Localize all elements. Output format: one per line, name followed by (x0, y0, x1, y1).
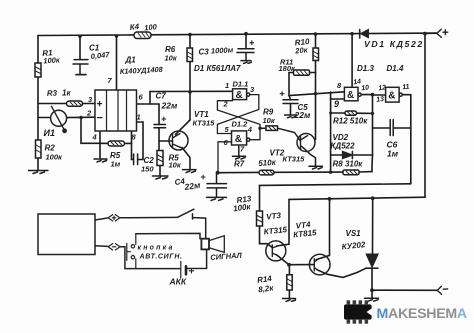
wire pin4 stub (99, 131, 101, 158)
svg-text:180к: 180к (279, 64, 297, 73)
svg-text:1: 1 (225, 81, 229, 90)
resistor R4 (K4) (134, 32, 151, 39)
wire R12 row (331, 112, 373, 114)
svg-text:1к: 1к (62, 89, 71, 98)
MAKESHEMA logo (344, 300, 467, 323)
node R10 top (314, 32, 318, 36)
plus mark C5 (280, 91, 285, 96)
wire C7 upper (158, 104, 160, 124)
svg-text:2: 2 (86, 109, 92, 118)
resistor R12 (345, 111, 357, 115)
node pin8 cross (314, 92, 317, 95)
ground under VT2 emitter (303, 148, 323, 170)
wire D1.4 output (402, 94, 411, 96)
wire mic row (38, 116, 96, 118)
resistor R9 (260, 126, 301, 141)
wire VS1 cathode vertical (371, 268, 373, 297)
connector minus left (108, 244, 120, 250)
svg-text:2: 2 (223, 100, 229, 109)
wire C5 branch vertical (289, 73, 291, 100)
wire C7 lower to R5b (158, 128, 160, 151)
ground under C1 (76, 74, 86, 76)
wire VD2 row (331, 154, 373, 156)
svg-text:22м: 22м (161, 101, 178, 111)
gate D1.1 (233, 89, 250, 101)
resistor R8 (343, 170, 359, 175)
wire C5 ground stub (290, 104, 292, 115)
svg-text:D1 К561ЛА7: D1 К561ЛА7 (194, 64, 241, 73)
plus mark C4 (201, 175, 206, 180)
wire pin14 vertical (351, 34, 353, 88)
transistor VT1 (169, 131, 188, 150)
op-amp U1 (Д1) body (95, 90, 137, 131)
wire stub up from pin6 row (149, 92, 151, 105)
ground under pin4 (94, 159, 107, 162)
node C1 top (78, 35, 82, 39)
wire right rail to plus (424, 34, 426, 198)
ground under R14 (283, 299, 296, 302)
wire C5 node to pin8 (289, 92, 344, 96)
svg-text:C3: C3 (199, 48, 210, 57)
svg-text:&: & (236, 90, 243, 101)
gate D1.2 (232, 131, 250, 145)
wire minus down and bottom row (120, 247, 180, 269)
wire R14 stub (288, 265, 290, 298)
svg-text:100к: 100к (46, 153, 64, 162)
ground under C3 (241, 61, 252, 64)
wire VT3 emitter to VT4 base (289, 264, 314, 266)
wire R5a to pin8 (100, 142, 132, 144)
node pin10 (371, 93, 375, 97)
ground under D1.2 pin7 (233, 145, 246, 159)
wire VT1 emitter to ground (182, 148, 190, 169)
node VS1 cathode (370, 288, 374, 292)
resistor R1 (35, 63, 41, 77)
button branch top wire (136, 233, 200, 238)
resistor R5 1M (108, 141, 125, 146)
svg-text:150: 150 (141, 165, 154, 174)
svg-text:10: 10 (361, 84, 370, 92)
resistor R7 (259, 170, 274, 175)
logo chip notch (367, 308, 372, 315)
connector plus right (437, 29, 448, 37)
svg-text:12: 12 (378, 84, 387, 92)
svg-text:КТ315: КТ315 (193, 119, 216, 128)
svg-text:R8 310к: R8 310к (333, 160, 364, 169)
wire pin9 loop (331, 99, 353, 101)
svg-text:10к: 10к (263, 116, 276, 125)
wire battery to horn (186, 249, 207, 268)
wire VT3 collector vertical (277, 199, 290, 246)
node R9 tap (258, 127, 261, 130)
wire VT4 emitter to VS1 gate (317, 268, 366, 277)
wire R11 row (289, 72, 316, 74)
capacitor C1 (73, 60, 88, 75)
wire pin1 to C2 (137, 122, 144, 160)
wire top supply rail (38, 33, 437, 35)
svg-text:4: 4 (247, 125, 253, 134)
resistor R5b 10k (157, 151, 163, 166)
logo chip pins (347, 300, 369, 323)
resistor R14 (287, 275, 292, 290)
resistor R13 (257, 211, 263, 226)
wire R10 branch (315, 34, 317, 140)
wire pin8 stub (132, 131, 134, 160)
connector plus left (108, 215, 120, 221)
ground under VS1 (365, 298, 379, 301)
capacitor C2 (134, 154, 138, 165)
svg-text:АВТ.СИГН.: АВТ.СИГН. (139, 254, 183, 261)
node pin14 top (350, 32, 354, 36)
svg-text:10к: 10к (169, 161, 182, 170)
svg-text:R7: R7 (234, 160, 245, 169)
svg-text:D1.3: D1.3 (357, 64, 374, 73)
svg-text:VS1: VS1 (346, 229, 362, 238)
svg-text:9: 9 (334, 99, 339, 109)
svg-text:1м: 1м (111, 160, 121, 169)
node VT3 emitter (287, 263, 291, 267)
capacitor C7 (154, 125, 166, 128)
wire R6 branch vertical (189, 35, 191, 120)
wire D1.3 output (361, 94, 372, 96)
wire C1 stub (79, 37, 81, 60)
wire VS1 to minus connector (372, 289, 437, 291)
svg-text:4: 4 (92, 133, 98, 142)
ground under VT1 emitter (183, 170, 197, 173)
wire left rail (37, 36, 39, 171)
wire VT1 base (159, 140, 173, 142)
gate D1.3 (344, 87, 361, 101)
svg-text:MAKESHEMA: MAKESHEMA (377, 306, 467, 322)
switch SA blade (177, 209, 205, 239)
wire D1.4 input (373, 94, 386, 96)
node R8 left (329, 171, 332, 174)
wire VT4 collector vertical (316, 199, 329, 260)
wire plus connector stub (425, 32, 437, 34)
wire R5b ground stub (159, 166, 161, 176)
gate D1.4 (386, 87, 403, 102)
svg-text:510к: 510к (258, 158, 277, 168)
svg-text:1000м: 1000м (211, 45, 234, 55)
resistor R10 (313, 48, 319, 61)
node VT1 collector (188, 90, 192, 94)
svg-text:D1.4: D1.4 (387, 64, 404, 73)
svg-text:Д1: Д1 (125, 56, 137, 65)
svg-text:1м: 1м (387, 149, 399, 159)
capacitor C4 (207, 173, 227, 197)
diode VD2 (343, 151, 353, 158)
svg-text:АКК: АКК (169, 277, 187, 287)
svg-text:И1: И1 (44, 128, 55, 138)
transistor VT3 (266, 241, 286, 261)
svg-text:D1.1: D1.1 (233, 80, 249, 89)
svg-text:R2: R2 (45, 144, 56, 153)
svg-text:К4: К4 (129, 22, 140, 32)
wire D1.3 out node vertical (371, 95, 374, 172)
svg-text:КД522: КД522 (331, 142, 356, 151)
svg-text:R3: R3 (47, 88, 58, 98)
svg-text:кнопка: кнопка (138, 245, 175, 252)
capacitor C6 (390, 120, 393, 136)
svg-text:VT3: VT3 (266, 211, 282, 222)
connector minus right (437, 286, 447, 294)
wire VT3 emitter (277, 255, 290, 265)
svg-text:100: 100 (144, 22, 158, 32)
node pin7 top (115, 34, 119, 38)
logo chip body (344, 304, 372, 319)
wire pin6 row (137, 103, 160, 105)
node mic out (79, 116, 83, 120)
microphone И1 (51, 106, 67, 133)
svg-text:20к: 20к (294, 45, 309, 55)
horn SIGNAL (201, 236, 224, 253)
wire C3 stub (245, 34, 247, 49)
wire node A horizontal to R13 (260, 184, 411, 211)
wire R7 R8 row (218, 172, 373, 173)
ground under R5b (153, 176, 169, 179)
svg-text:22м: 22м (294, 110, 311, 120)
svg-text:11: 11 (402, 83, 410, 91)
svg-text:13: 13 (376, 96, 385, 104)
transistor VT2 (297, 134, 315, 152)
wire box to minus connector (95, 245, 108, 248)
svg-text:D1.2: D1.2 (232, 120, 249, 129)
node C3 top (244, 32, 248, 36)
resistor R2 (36, 140, 42, 158)
ground under C5 (285, 115, 297, 118)
svg-text:C7: C7 (156, 92, 167, 101)
plus mark C7 (162, 117, 167, 122)
wire inner return vertical (410, 95, 412, 184)
wire C6 row (373, 127, 411, 129)
node R12 right (371, 112, 374, 115)
battery AKK (181, 262, 194, 278)
svg-text:R12 510к: R12 510к (333, 117, 368, 126)
svg-text:100к: 100к (43, 55, 61, 65)
ground under R2 (29, 171, 49, 174)
svg-text:VD1 КД522: VD1 КД522 (364, 39, 424, 49)
node C4 R7 (216, 171, 220, 175)
transistor VT4 (309, 254, 330, 275)
wire R3 input (38, 103, 96, 105)
node VS1 anode (371, 196, 375, 200)
svg-text:10к: 10к (165, 54, 178, 63)
RS trigger cross wires (217, 95, 260, 173)
ground under C4 (207, 197, 227, 200)
svg-text:1: 1 (137, 113, 141, 122)
diode VD1 (360, 30, 369, 38)
node R12 left (329, 112, 332, 115)
thyristor VS1 (366, 254, 378, 268)
wire supply row to collectors (289, 197, 425, 199)
capacitor C5 (283, 100, 298, 104)
wire box to plus connector (95, 218, 108, 220)
wire R13 to VT3 base (260, 226, 273, 248)
node R6 top (188, 33, 192, 37)
svg-text:КТ315: КТ315 (283, 155, 306, 164)
wire to switch (120, 216, 178, 218)
resistor R6 (187, 48, 193, 62)
capacitor C3 (237, 49, 254, 60)
svg-text:&: & (388, 91, 395, 102)
control unit box (38, 214, 95, 255)
resistor R11 (294, 70, 310, 75)
wire VS1 anode vertical (372, 198, 374, 254)
button KN contacts (127, 234, 136, 269)
resistor R3 (67, 101, 83, 106)
svg-text:&: & (347, 90, 354, 101)
node VT4 collector (328, 197, 332, 201)
wire D1.3 input vertical (330, 92, 332, 172)
node rail top (423, 32, 427, 36)
wire opamp output to gate D1.1 pin1 (150, 90, 233, 92)
wire pin7 vertical (116, 36, 118, 90)
wire inverting feedback vertical (81, 118, 100, 144)
wire VT1 collector (176, 120, 191, 135)
plus mark C3 (162, 40, 285, 179)
